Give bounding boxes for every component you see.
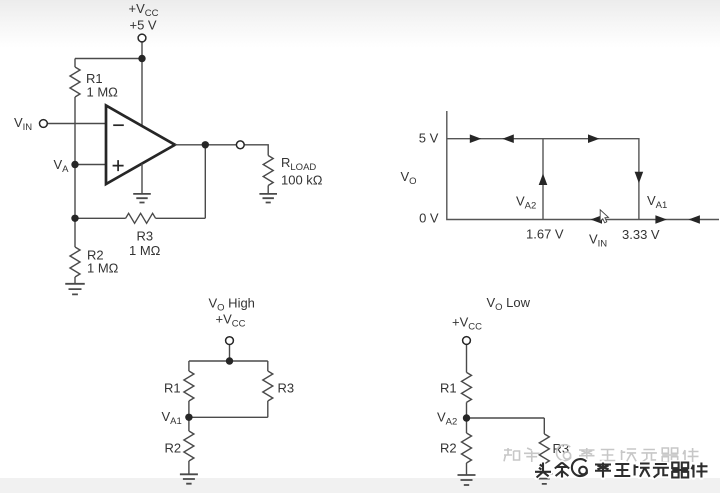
svg-text:R2: R2 xyxy=(440,441,457,456)
svg-text:R2: R2 xyxy=(165,440,182,455)
svg-text:1 MΩ: 1 MΩ xyxy=(87,85,119,100)
svg-text:R3: R3 xyxy=(553,441,570,456)
svg-text:3.33 V: 3.33 V xyxy=(622,227,660,242)
svg-text:R1: R1 xyxy=(164,380,181,395)
svg-text:5 V: 5 V xyxy=(419,130,439,145)
svg-text:0 V: 0 V xyxy=(419,211,439,226)
svg-text:1.67 V: 1.67 V xyxy=(526,227,564,242)
svg-text:R3: R3 xyxy=(137,229,154,244)
svg-text:+5 V: +5 V xyxy=(130,18,157,33)
svg-text:1 MΩ: 1 MΩ xyxy=(87,261,119,276)
svg-text:100 kΩ: 100 kΩ xyxy=(281,173,323,188)
svg-text:1 MΩ: 1 MΩ xyxy=(129,243,161,258)
svg-text:R1: R1 xyxy=(440,380,457,395)
svg-text:R3: R3 xyxy=(278,380,295,395)
